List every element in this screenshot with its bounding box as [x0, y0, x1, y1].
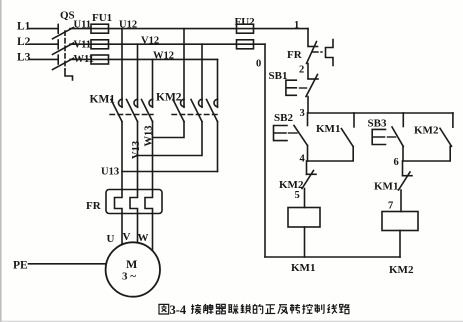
svg-text:PE: PE: [13, 260, 28, 272]
svg-text:V: V: [123, 231, 131, 243]
wire PE to motor: [29, 263, 107, 265]
fuse FU1 pole1 body: [91, 24, 109, 33]
switch QS pole 2 jaw: [57, 40, 59, 49]
contactor KM2 main pole1 contact: [173, 99, 184, 121]
wire SB3 to node6: [402, 147, 404, 162]
wire rail end corner down to KM2 aux: [452, 113, 454, 127]
thermal relay FR heater element 3: [145, 190, 153, 214]
wire KM2 pole3 output to U13: [217, 122, 219, 172]
svg-text:V13: V13: [131, 141, 142, 159]
wire KM2 pole1 output to W13: [153, 122, 185, 138]
thermal relay FR heater element 2: [130, 190, 138, 214]
wire KM1 coil to bottom rail: [304, 227, 306, 257]
svg-text:3 ~: 3 ~: [122, 271, 136, 283]
fuse FU1 pole3 through-wire: [91, 58, 109, 60]
wire drop U12 to KM2 pole1: [183, 29, 185, 108]
wire drop W12 to KM2 pole3: [217, 59, 219, 107]
svg-text:7: 7: [388, 201, 393, 212]
contactor KM1 main pole3 contact: [142, 99, 153, 121]
svg-text:M: M: [126, 257, 137, 271]
contactor KM1 main pole1 contact: [111, 99, 122, 121]
pushbutton SB2 actuator E: [274, 126, 288, 141]
thermal relay FR trip linkage dash: [313, 51, 322, 53]
switch QS linkage dashed: [64, 31, 66, 69]
wire drop V12 to KM1 pole2: [137, 44, 139, 107]
svg-text:FU2: FU2: [235, 16, 256, 28]
svg-text:L2: L2: [17, 36, 31, 48]
contactor KM2 main pole3 contact: [207, 99, 218, 121]
svg-text:KM1: KM1: [374, 181, 398, 193]
svg-text:L3: L3: [17, 51, 31, 63]
pushbutton SB3 actuator E: [372, 129, 385, 144]
wire bus W12 row3: [109, 58, 218, 60]
contactor KM2 main pole2 contact: [191, 99, 202, 121]
wire KM1 pole2 output V13 vertical: [137, 122, 139, 190]
contactor KM1 main pole2 contact: [127, 99, 138, 121]
fuse FU1 pole2 body: [91, 40, 109, 49]
scan edge artifact bottom: [0, 321, 463, 322]
contactor KM1 aux NO fixed terminal: [353, 113, 355, 127]
svg-text:FR: FR: [287, 49, 303, 61]
wire KM1 aux bottom to node4: [308, 147, 354, 161]
contactor KM2 NC seat: [307, 173, 317, 175]
svg-text:L1: L1: [17, 21, 31, 33]
thermal relay FR heater element 1: [115, 190, 123, 214]
contactor KM2 NC blade: [302, 171, 314, 189]
wire bus V12 row2 from FU1 through FU2 to 0-line corner: [109, 43, 266, 45]
wire U13 cross link: [122, 171, 218, 173]
wire FR to motor U: [121, 214, 123, 245]
switch QS pole 3 blade: [53, 58, 74, 69]
switch QS pole 1 jaw: [57, 24, 59, 33]
contactor KM2 aux NO blade: [440, 128, 452, 146]
pushbutton SB3 fixed terminal: [402, 113, 404, 127]
svg-text:1: 1: [294, 20, 299, 31]
coil KM1 body: [288, 208, 320, 228]
wire bus U12 row1 from FU1 through FU2 to node1 corner: [109, 28, 309, 30]
wire node4 down to KM2 NC: [306, 161, 308, 174]
svg-text:5: 5: [295, 190, 300, 201]
svg-text:KM2: KM2: [389, 264, 414, 276]
contactor KM1 linkage dashed: [110, 114, 153, 116]
svg-text:W13: W13: [144, 126, 155, 147]
wire QS to FU1 row1: [70, 28, 91, 30]
wire QS to FU1 row3: [70, 58, 91, 60]
switch QS handle: [65, 69, 73, 80]
svg-text:KM2: KM2: [279, 179, 304, 191]
fuse FU1 pole2 through-wire: [91, 43, 109, 45]
wire KM1 pole3 output W13 vertical: [152, 122, 154, 190]
pushbutton SB1 NC seat: [308, 78, 318, 80]
switch QS pole 2 blade: [53, 43, 74, 54]
svg-text:U: U: [107, 233, 115, 245]
wire node3 rail: [308, 112, 453, 114]
wire L1 to QS: [29, 28, 58, 30]
wire KM1 NC to KM2 coil: [400, 190, 402, 212]
wire KM2 NC to KM1 coil: [304, 189, 306, 208]
wire QS to FU1 row2: [70, 43, 91, 45]
svg-text:6: 6: [394, 157, 399, 168]
switch QS pole 3 jaw: [57, 55, 59, 64]
svg-text:4: 4: [300, 154, 306, 165]
caption 图3-4 接触器联锁的正反转控制线路: [159, 304, 349, 314]
svg-text:SB1: SB1: [269, 70, 288, 82]
wire drop W12 to KM1 pole3: [152, 59, 154, 107]
svg-text:QS: QS: [60, 10, 75, 22]
contactor KM2 linkage dashed: [172, 114, 218, 116]
fuse FU1 pole1 through-wire: [91, 28, 109, 30]
contactor KM1 NC seat: [403, 175, 413, 177]
wire drop U12 to KM1 pole1: [121, 29, 123, 108]
contactor KM1 NC blade: [399, 172, 411, 190]
wire KM2 aux bottom to node6: [403, 146, 450, 161]
wire L2 to QS: [29, 43, 58, 45]
svg-text:KM2: KM2: [414, 125, 439, 137]
wire FR to SB1: [307, 64, 309, 79]
svg-text:SB3: SB3: [368, 117, 387, 129]
fuse FU2 lower body: [237, 40, 254, 49]
svg-text:KM1: KM1: [316, 123, 340, 135]
switch QS pole 1 blade: [53, 27, 74, 38]
pushbutton SB3 push rod: [388, 136, 396, 138]
wire neutral 0 line vertical: [264, 44, 266, 257]
pushbutton SB1 NC blade: [306, 75, 318, 97]
pushbutton SB3 NO blade: [392, 127, 403, 147]
svg-text:3-4: 3-4: [170, 303, 187, 317]
motor M 3~ circle: [106, 242, 160, 296]
svg-text:FU1: FU1: [92, 12, 112, 24]
thermal relay FR heater box: [106, 190, 162, 214]
wire KM1 pole1 output U13 vertical: [121, 122, 123, 190]
pushbutton SB1 push rod dash: [300, 87, 307, 89]
fuse FU1 pole3 body: [91, 55, 109, 64]
svg-text:2: 2: [299, 65, 304, 76]
fuse FU2 upper body: [237, 24, 254, 33]
thermal relay FR NC contact blade: [307, 42, 317, 64]
wire bottom rail: [265, 256, 400, 258]
svg-text:3: 3: [300, 108, 305, 119]
wire KM2 coil to bottom rail: [399, 231, 401, 258]
pushbutton SB2 push rod: [289, 132, 298, 134]
wire FR to motor W: [152, 214, 154, 251]
svg-text:0: 0: [256, 59, 261, 70]
wire L3 to QS: [29, 58, 58, 60]
svg-text:U13: U13: [101, 167, 119, 178]
svg-text:KM2: KM2: [156, 92, 182, 104]
wire drop V12 to KM2 pole2: [201, 44, 203, 107]
pushbutton SB1 actuator E: [286, 80, 296, 95]
scan edge artifact left: [0, 0, 2, 322]
coil KM2 body: [382, 212, 418, 231]
wire FR to motor V: [137, 214, 139, 243]
thermal relay FR trip element symbol: [326, 40, 334, 66]
contactor KM1 aux NO blade: [341, 129, 353, 147]
wire node1 corner down: [307, 29, 309, 46]
wire SB2 to node4: [307, 146, 309, 162]
wire KM2 pole2 output to V13: [138, 122, 203, 156]
pushbutton SB2 fixed terminal: [307, 113, 309, 126]
svg-text:KM1: KM1: [291, 262, 315, 274]
wire node6 down to KM1 NC: [402, 161, 404, 176]
thermal relay FR NC contact seat: [308, 46, 318, 48]
svg-text:FR: FR: [86, 200, 102, 212]
wire SB1 to node3: [307, 97, 309, 114]
pushbutton SB2 NO blade: [294, 126, 308, 146]
svg-text:SB2: SB2: [274, 112, 293, 124]
